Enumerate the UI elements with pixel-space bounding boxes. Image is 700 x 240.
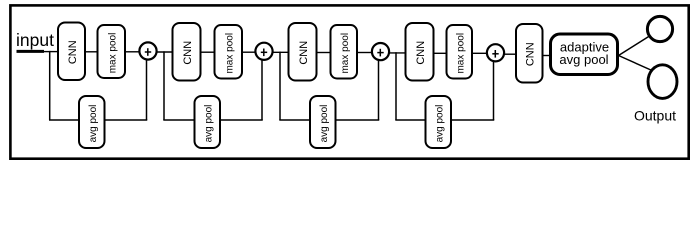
svg-text:avg pool: avg pool — [88, 105, 99, 143]
svg-text:max pool: max pool — [340, 33, 351, 74]
svg-text:input: input — [16, 30, 54, 50]
svg-text:avg pool: avg pool — [203, 105, 214, 143]
svg-text:max pool: max pool — [107, 33, 118, 74]
svg-text:CNN: CNN — [67, 40, 79, 64]
svg-text:avg pool: avg pool — [434, 105, 445, 143]
svg-text:avg pool: avg pool — [559, 52, 608, 67]
svg-text:CNN: CNN — [298, 41, 310, 65]
svg-text:max pool: max pool — [224, 33, 235, 74]
svg-text:CNN: CNN — [182, 41, 194, 65]
svg-text:CNN: CNN — [415, 41, 427, 65]
svg-text:Output: Output — [634, 108, 676, 124]
svg-text:CNN: CNN — [525, 42, 537, 66]
svg-text:avg pool: avg pool — [319, 105, 330, 143]
svg-text:max pool: max pool — [455, 33, 466, 74]
